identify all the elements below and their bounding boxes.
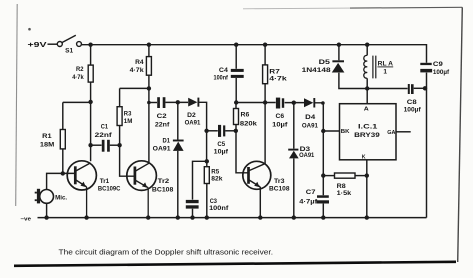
svg-text:4·7k: 4·7k: [130, 67, 144, 74]
wire top rail: [82, 45, 427, 63]
resistor R8: [335, 173, 356, 197]
svg-text:OA91: OA91: [185, 120, 201, 127]
transistor Tr3: [243, 161, 290, 192]
wire bottom rail: [38, 217, 427, 219]
wire mic bottom: [46, 203, 48, 218]
diode D1: [153, 138, 184, 153]
svg-text:1M: 1M: [124, 118, 133, 125]
wire R8 left: [323, 175, 334, 177]
svg-text:82k: 82k: [211, 175, 222, 182]
wire R2 node down to C1 node: [90, 102, 92, 145]
svg-text:BC109C: BC109C: [98, 186, 121, 193]
wire RLA bottom: [366, 78, 368, 88]
wire D1 top: [177, 102, 179, 140]
wire D3 bottom: [293, 159, 295, 218]
wire D5 top: [338, 45, 340, 61]
diode D3: [288, 146, 314, 159]
wire GA stub: [396, 131, 411, 133]
svg-text:R2: R2: [76, 66, 84, 73]
wire Tr3 base: [236, 131, 248, 173]
resistor R5: [204, 167, 222, 184]
svg-text:OA91: OA91: [299, 152, 315, 159]
wire C1 right: [110, 144, 120, 146]
transistor Tr2: [127, 161, 174, 218]
svg-text:–ve: –ve: [21, 216, 32, 222]
svg-text:R3: R3: [124, 111, 132, 118]
diode D2: [185, 98, 201, 127]
resistor R6: [234, 109, 258, 128]
wire R5 bottom: [206, 184, 208, 218]
switch S1: [57, 35, 81, 46]
svg-text:C4: C4: [219, 67, 228, 74]
svg-text:C9: C9: [433, 61, 443, 68]
resistor R2: [72, 65, 93, 82]
wire +9V lead: [48, 43, 58, 45]
svg-text:1N4148: 1N4148: [302, 67, 331, 74]
wire R4 top: [148, 45, 150, 57]
wire K vertical: [366, 160, 368, 218]
wire C7 bottom: [322, 204, 324, 218]
wire R2 top: [90, 45, 92, 65]
svg-text:100nf: 100nf: [209, 205, 229, 212]
wire C4 bottom: [235, 78, 237, 103]
wire mid horizontal left: [236, 102, 276, 104]
svg-text:4·7k: 4·7k: [72, 74, 84, 81]
microphone Mic: [35, 189, 68, 204]
wire D4 cathode corner down: [315, 103, 324, 195]
svg-text:BRY39: BRY39: [354, 132, 380, 139]
wire C3 bottom: [192, 209, 194, 218]
svg-text:R5: R5: [211, 168, 219, 175]
svg-text:4·7µf: 4·7µf: [299, 199, 318, 206]
svg-text:Tr3: Tr3: [274, 178, 285, 185]
capacitor C1: [95, 124, 113, 152]
svg-text:C5: C5: [217, 141, 225, 148]
svg-text:BC108: BC108: [269, 186, 290, 193]
svg-text:R1: R1: [42, 133, 52, 140]
svg-text:D2: D2: [187, 112, 196, 119]
capacitor C9: [420, 61, 449, 76]
wire C2 left: [149, 102, 157, 104]
svg-text:C2: C2: [157, 113, 167, 120]
svg-text:1·5k: 1·5k: [337, 190, 352, 197]
capacitor C4: [214, 67, 244, 82]
svg-text:100µf: 100µf: [433, 69, 450, 76]
wire C2 to D2: [165, 101, 188, 103]
svg-text:Mic.: Mic.: [55, 195, 67, 202]
svg-text:C7: C7: [306, 189, 316, 196]
svg-text:C6: C6: [276, 113, 285, 120]
wire RLA top: [366, 45, 368, 56]
wire R7 top: [264, 45, 266, 65]
svg-text:D4: D4: [305, 114, 315, 121]
resistor R3: [117, 107, 133, 126]
svg-text:C3: C3: [210, 198, 217, 205]
svg-text:D5: D5: [319, 59, 331, 66]
svg-text:R7: R7: [269, 68, 280, 75]
wire R7 bottom: [264, 84, 266, 103]
svg-text:K: K: [362, 155, 366, 161]
wire Tr3 emitter: [259, 187, 261, 218]
wire C5 right: [225, 130, 236, 132]
wire R3 upper: [119, 88, 121, 106]
wire C3 branch: [193, 161, 207, 199]
svg-text:BC108: BC108: [152, 186, 174, 193]
svg-text:820k: 820k: [240, 120, 257, 127]
svg-text:I.C.1: I.C.1: [358, 124, 378, 131]
wire R4 bottom / Tr2 collector: [148, 75, 150, 163]
wire mic to Tr1 base: [47, 173, 76, 189]
wire R1 bottom: [62, 149, 64, 174]
transistor Tr1: [67, 161, 120, 218]
capacitor C3: [186, 198, 229, 212]
wire R1 top: [62, 102, 64, 129]
svg-text:22nf: 22nf: [95, 132, 113, 139]
svg-text:C8: C8: [407, 99, 417, 106]
wire R5 top: [206, 161, 208, 166]
svg-text:R6: R6: [241, 112, 250, 119]
svg-text:22nf: 22nf: [155, 122, 170, 129]
svg-text:The circuit diagram of the Dop: The circuit diagram of the Doppler shift…: [59, 248, 274, 257]
wire node to R5 node: [206, 131, 208, 162]
svg-text:+9V: +9V: [28, 42, 47, 49]
svg-text:1: 1: [383, 69, 387, 76]
svg-text:100nf: 100nf: [214, 75, 229, 82]
wire Tr1 collector: [90, 145, 92, 161]
IC IC1 BRY39 (thyristor): [340, 104, 397, 161]
svg-text:10µf: 10µf: [214, 149, 229, 156]
wire R8 right: [355, 175, 367, 177]
diode D5: [302, 59, 345, 74]
relay coil RLA: [364, 55, 394, 78]
svg-text:Tr1: Tr1: [100, 178, 110, 185]
svg-text:18M: 18M: [40, 141, 55, 148]
svg-text:A: A: [364, 106, 369, 112]
resistor R1: [40, 130, 65, 149]
wire R2 bottom to node: [90, 82, 92, 102]
wire R6: [235, 103, 237, 131]
stray ink speck: [28, 28, 31, 31]
wire C6 to D4: [285, 102, 304, 104]
wire IC1 A pin: [366, 89, 368, 104]
wire right rail lower: [426, 73, 428, 218]
wire C4 top: [235, 45, 237, 69]
capacitor C8: [404, 84, 422, 113]
wire D5 bottom corner: [339, 73, 367, 89]
wire R3 top link: [120, 87, 149, 89]
wire C8 left: [367, 88, 407, 90]
wire C5 left: [207, 130, 218, 132]
svg-text:OA91: OA91: [153, 145, 171, 152]
svg-text:GA: GA: [387, 130, 395, 136]
svg-text:R4: R4: [135, 59, 144, 66]
wire D2 cathode corner: [199, 102, 207, 131]
svg-text:C1: C1: [101, 124, 108, 131]
svg-text:OA91: OA91: [302, 122, 318, 129]
svg-text:BK: BK: [341, 129, 350, 135]
capacitor C7: [299, 189, 329, 205]
capacitor C5: [214, 125, 229, 156]
wire D3 top: [293, 103, 295, 149]
svg-text:Tr2: Tr2: [158, 178, 170, 185]
wire R1 horizontal link: [63, 101, 91, 103]
diode D4: [302, 98, 318, 129]
wire D1 bottom: [177, 151, 179, 218]
svg-text:S1: S1: [65, 48, 73, 55]
svg-text:10µf: 10µf: [272, 121, 288, 128]
wire BK link: [323, 130, 339, 132]
wire C1 left: [91, 144, 102, 146]
svg-text:4·7k: 4·7k: [269, 76, 287, 83]
wire Tr3 collector: [264, 103, 266, 164]
wire C8 right: [414, 87, 427, 89]
wire R3 lower to Tr2 base: [120, 126, 135, 177]
capacitor C2: [155, 97, 170, 128]
svg-text:100µf: 100µf: [404, 106, 422, 113]
resistor R7: [263, 65, 287, 84]
svg-text:D1: D1: [163, 138, 171, 145]
capacitor C6: [272, 98, 288, 129]
resistor R4: [130, 57, 152, 76]
